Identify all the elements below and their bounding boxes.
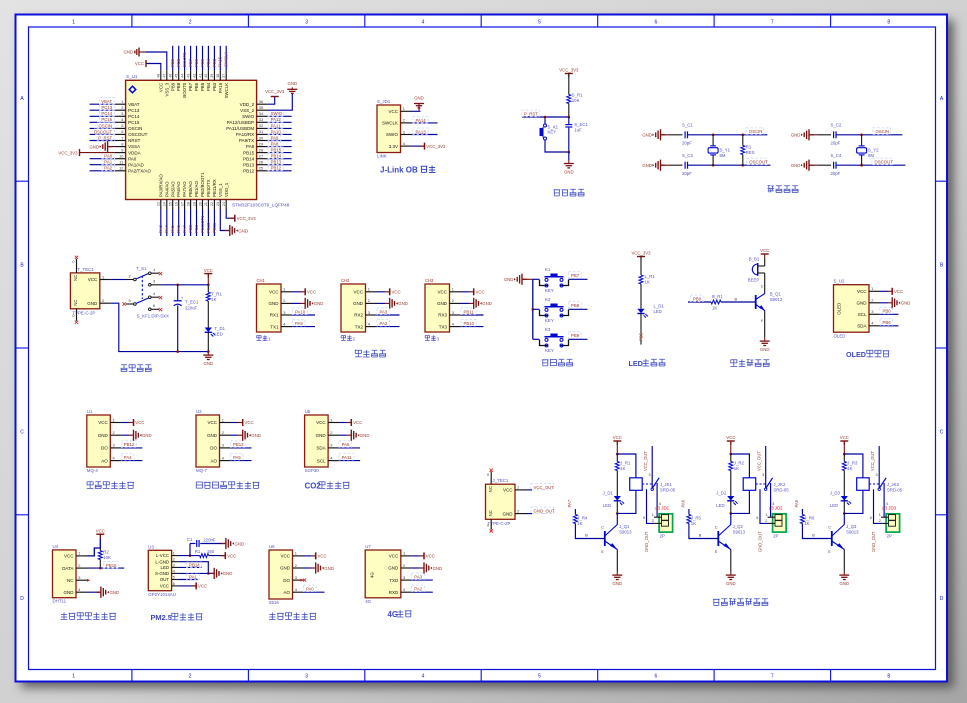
- resistor J_R3 1K: [842, 462, 846, 471]
- wire L-VCC node: [179, 555, 200, 557]
- node junction: [616, 453, 619, 456]
- svg-text:1K: 1K: [804, 521, 809, 526]
- svg-text:S9013: S9013: [846, 529, 859, 534]
- relay coil J_JK1 SRD-05: [630, 478, 643, 491]
- pin 2 GND: [328, 434, 339, 436]
- pin 27 PB14: [257, 158, 268, 160]
- net label PA4: [121, 454, 134, 461]
- net label PA9: [292, 320, 305, 327]
- wire base net: [574, 509, 576, 515]
- svg-text:L_D1: L_D1: [654, 304, 665, 309]
- svg-text:2: 2: [403, 118, 405, 123]
- svg-text:VCC: VCC: [64, 554, 74, 559]
- wire: [90, 109, 115, 111]
- svg-text:K2: K2: [545, 297, 551, 302]
- connector T_TEC1 TYPE-C-2P: [70, 273, 99, 309]
- svg-text:RES: RES: [746, 150, 755, 155]
- wire OSCIN: [837, 134, 903, 136]
- wire: [121, 422, 129, 424]
- ground: [238, 434, 243, 436]
- pin 2 GND: [110, 434, 121, 436]
- svg-text:3: 3: [283, 310, 285, 315]
- svg-text:GND: GND: [414, 96, 424, 101]
- wire: [568, 128, 570, 152]
- svg-text:S9013: S9013: [733, 529, 746, 534]
- svg-text:SWCLK: SWCLK: [224, 83, 229, 99]
- wire: [90, 133, 115, 135]
- svg-text:1: 1: [72, 20, 75, 26]
- svg-text:GND: GND: [123, 50, 133, 55]
- wire: [339, 460, 360, 462]
- module U5 SGP30 group: [305, 409, 370, 491]
- net label GND_OUT: [531, 507, 554, 513]
- svg-text:PB7: PB7: [188, 82, 193, 91]
- wire: [461, 314, 484, 316]
- relay driver circuit 2 group: [681, 435, 790, 586]
- svg-text:PA9: PA9: [295, 321, 303, 326]
- pin 15 PA5/AO: [172, 200, 174, 210]
- wire pin1 to GND: [412, 110, 421, 112]
- LED J_D1: [614, 496, 621, 501]
- pin 38 PA15: [219, 70, 221, 80]
- svg-text:VCC: VCC: [204, 268, 213, 273]
- wire: [339, 447, 360, 449]
- svg-text:1: 1: [222, 417, 224, 422]
- svg-text:J_Q1: J_Q1: [619, 524, 630, 529]
- svg-text:17: 17: [180, 202, 184, 206]
- svg-text:1: 1: [173, 552, 175, 556]
- wire: [90, 103, 115, 105]
- svg-text:GND: GND: [204, 361, 214, 366]
- svg-text:1: 1: [330, 417, 332, 422]
- wire: [616, 471, 618, 497]
- svg-text:VCC: VCC: [503, 488, 513, 493]
- module U3 GP2Y1014AU group: [148, 537, 244, 622]
- pin 41 PB5: [202, 70, 204, 80]
- pin 24 VDD_1: [225, 200, 227, 210]
- wire: [268, 146, 292, 148]
- svg-text:PB9: PB9: [571, 333, 580, 338]
- wire: [268, 158, 292, 160]
- svg-text:LED: LED: [830, 503, 838, 508]
- net label PB10: [461, 320, 476, 327]
- svg-text:1: 1: [113, 417, 115, 422]
- svg-text:1: 1: [78, 551, 80, 556]
- resistor J_R4 1K: [573, 515, 577, 524]
- wire gnd bus: [522, 278, 533, 280]
- crystal circuit 2 group: [791, 123, 906, 177]
- svg-text:PB12: PB12: [243, 168, 255, 173]
- power VCC: [300, 291, 305, 293]
- svg-text:PB3: PB3: [212, 82, 217, 91]
- svg-text:2: 2: [102, 298, 104, 303]
- net label PB14: [187, 561, 202, 568]
- pin 3 LED: [172, 566, 179, 568]
- svg-text:S-GND: S-GND: [155, 571, 169, 576]
- wire: [640, 257, 642, 276]
- svg-text:PB1/AO: PB1/AO: [194, 181, 199, 197]
- component body U6 5516: [269, 550, 293, 599]
- svg-text:RX1: RX1: [270, 313, 279, 318]
- node junction: [730, 453, 733, 456]
- pin 3 DO: [293, 579, 304, 581]
- svg-text:PA0: PA0: [306, 587, 314, 592]
- pin 3 RX1: [281, 314, 292, 316]
- wire: [730, 501, 732, 514]
- svg-text:3: 3: [113, 443, 115, 448]
- power VCC_3V3 at VDDA pin 9: [80, 152, 115, 154]
- svg-text:5: 5: [643, 516, 645, 520]
- component body J_TEC1 TYPE-C-2P: [486, 484, 516, 519]
- svg-text:GND: GND: [269, 301, 280, 306]
- wire: [292, 302, 301, 304]
- svg-text:J_JK2: J_JK2: [773, 482, 786, 487]
- svg-text:LED: LED: [215, 332, 223, 337]
- svg-text:6: 6: [121, 129, 123, 134]
- svg-text:P_RST: P_RST: [524, 112, 538, 117]
- svg-text:J_Q3: J_Q3: [846, 524, 857, 529]
- net label PA2: [102, 164, 115, 171]
- wire: [730, 471, 732, 497]
- svg-text:T_TEC1: T_TEC1: [77, 267, 94, 272]
- svg-text:PB8: PB8: [176, 82, 181, 91]
- power VCC_3V3 at VDD_1 pin 24: [226, 210, 235, 219]
- resistor L_R1 1K: [639, 275, 643, 284]
- pin 45 PB8: [178, 70, 180, 80]
- svg-text:C: C: [940, 429, 944, 435]
- ground: [96, 591, 101, 593]
- net label PA12: [268, 116, 283, 123]
- wire: [268, 121, 292, 123]
- capacitor S_C4 20pF: [833, 162, 835, 169]
- pin 28 PB15: [257, 152, 268, 154]
- net label PB15: [268, 146, 283, 153]
- svg-text:VCC: VCC: [437, 290, 447, 295]
- net label PB8: [568, 302, 581, 309]
- svg-text:GND_OUT: GND_OUT: [644, 531, 649, 552]
- svg-text:GND_OUT: GND_OUT: [871, 531, 876, 552]
- svg-text:TX1: TX1: [270, 324, 279, 329]
- svg-text:S_K1: S_K1: [548, 124, 559, 129]
- svg-text:1: 1: [452, 287, 454, 292]
- net label PA3: [412, 573, 425, 580]
- wire: [90, 158, 115, 160]
- svg-text:150: 150: [207, 549, 215, 554]
- connector J_TEC1 TYPE-C-2P group: [486, 469, 555, 533]
- node junction: [843, 512, 846, 515]
- connector CH3: [425, 284, 450, 332]
- svg-text:1: 1: [283, 287, 285, 292]
- svg-text:K3: K3: [545, 327, 551, 332]
- svg-text:J_D3: J_D3: [830, 491, 841, 496]
- resistor B_R1 1K: [711, 300, 721, 304]
- connector CH1: [257, 284, 282, 332]
- svg-text:PA9/TX: PA9/TX: [239, 138, 254, 143]
- crystal S_Y2 8M: [860, 134, 863, 137]
- wire: [184, 46, 186, 71]
- power VCC: [385, 291, 390, 293]
- svg-text:STM32F103C8T6_LQFP48: STM32F103C8T6_LQFP48: [232, 203, 290, 208]
- svg-text:U3: U3: [148, 544, 154, 549]
- svg-text:PB1: PB1: [194, 224, 199, 233]
- net label OSCIN: [873, 128, 891, 135]
- svg-text:C: C: [20, 429, 24, 435]
- net label PB0: [880, 307, 893, 314]
- svg-text:GND: GND: [791, 133, 801, 138]
- svg-text:PA1/AD: PA1/AD: [128, 162, 144, 167]
- resistor J_R2 1K: [729, 462, 733, 471]
- svg-text:GND: GND: [223, 571, 233, 576]
- svg-text:PA12: PA12: [271, 117, 282, 122]
- component body U1 MQ-4: [87, 415, 111, 467]
- wire: [231, 422, 239, 424]
- svg-text:1K: 1K: [211, 297, 216, 302]
- svg-text:GND: GND: [840, 581, 850, 586]
- svg-text:1uF: 1uF: [574, 127, 582, 132]
- pin 4 TX3: [450, 326, 461, 328]
- svg-text:LED: LED: [161, 565, 170, 570]
- connector JD1 2P: [659, 514, 673, 532]
- svg-text:SDA: SDA: [857, 324, 866, 329]
- svg-text:GND: GND: [64, 590, 75, 595]
- svg-text:DATA: DATA: [62, 566, 73, 571]
- svg-text:PB10: PB10: [464, 321, 475, 326]
- pin 4 SDA: [869, 325, 880, 327]
- net label PB7: [568, 272, 581, 279]
- svg-text:VCC: VCC: [269, 290, 279, 295]
- svg-text:PB10: PB10: [206, 222, 211, 233]
- wire up to cap: [189, 544, 191, 556]
- ground: [418, 104, 420, 112]
- svg-text:SRD-05: SRD-05: [773, 488, 789, 493]
- svg-text:26: 26: [259, 160, 263, 165]
- net label OSCOUT: [872, 158, 892, 165]
- svg-text:S_C4: S_C4: [831, 153, 842, 158]
- wire: [268, 152, 292, 154]
- svg-text:NRST: NRST: [128, 138, 141, 143]
- wire: [268, 127, 292, 129]
- wire contact NO down: [883, 483, 885, 517]
- wire: [231, 434, 239, 436]
- wire: [178, 210, 180, 237]
- svg-text:VSS_3: VSS_3: [164, 82, 169, 96]
- pin 35 VSS_2: [257, 109, 268, 111]
- svg-text:2: 2: [189, 673, 192, 679]
- svg-text:GND: GND: [89, 144, 99, 149]
- svg-text:20: 20: [198, 202, 202, 206]
- svg-text:25: 25: [259, 166, 263, 171]
- pin 1 VCC: [281, 291, 292, 293]
- ground: [469, 302, 474, 304]
- power VCC: [191, 585, 196, 587]
- buzzer circuit group: [688, 248, 783, 366]
- wire: [184, 210, 186, 237]
- svg-text:2: 2: [113, 430, 115, 435]
- pin 4 AO: [110, 460, 121, 462]
- wire: [377, 291, 386, 293]
- ground at VSS_2 pin 35: [268, 93, 293, 110]
- svg-text:GND: GND: [324, 566, 334, 571]
- svg-text:T_R1: T_R1: [211, 291, 222, 296]
- svg-text:TXD: TXD: [389, 578, 399, 583]
- svg-text:PA5/AO: PA5/AO: [170, 181, 175, 197]
- wire to coil top: [617, 454, 636, 478]
- component body U3 GP2Y1014AU: [148, 550, 171, 590]
- wire: [90, 164, 115, 166]
- wire: [569, 278, 588, 280]
- wire: [568, 117, 570, 124]
- ground: [207, 352, 209, 356]
- svg-text:AO: AO: [283, 590, 290, 595]
- svg-text:8: 8: [887, 673, 890, 679]
- pin 0 NC top: [76, 259, 78, 273]
- pin 2 SWCLK: [401, 122, 412, 124]
- pin 1 VCC: [293, 555, 304, 557]
- svg-text:5: 5: [173, 576, 175, 580]
- net label PC14: [100, 110, 115, 117]
- ground: [385, 302, 390, 304]
- svg-text:GND_OUT: GND_OUT: [534, 509, 555, 514]
- svg-text:S_EC1: S_EC1: [574, 122, 588, 127]
- svg-text:NC: NC: [488, 486, 493, 492]
- ground: [209, 572, 214, 574]
- svg-text:MQ-7: MQ-7: [196, 468, 208, 473]
- net label PA2: [377, 320, 390, 327]
- svg-text:3: 3: [173, 563, 175, 567]
- ground: [661, 134, 666, 136]
- resistor R1 RES: [742, 134, 745, 137]
- svg-text:R1: R1: [746, 145, 752, 150]
- resistor R1 150: [200, 554, 209, 558]
- pin 2 GND: [515, 513, 525, 515]
- svg-text:PC15: PC15: [128, 120, 140, 125]
- svg-text:5: 5: [538, 20, 541, 26]
- net label SWIO: [268, 110, 283, 117]
- wire to VCC: [209, 555, 225, 557]
- wire OSCOUT: [688, 164, 770, 166]
- svg-text:J_R1: J_R1: [620, 461, 631, 466]
- svg-text:2P: 2P: [887, 534, 892, 539]
- svg-text:2: 2: [189, 20, 192, 26]
- component body S_JD1 LINK: [377, 105, 401, 153]
- net label PA5: [230, 454, 243, 461]
- svg-text:J_TEC1: J_TEC1: [493, 478, 509, 483]
- svg-text:41: 41: [198, 74, 202, 78]
- node junction: [843, 453, 846, 456]
- pin 4 AO: [293, 591, 304, 593]
- svg-text:SWCLK: SWCLK: [224, 52, 229, 67]
- component body U5 SGP30: [305, 415, 329, 467]
- wire contact pin5 to JD pin2: [874, 489, 882, 523]
- capacitor S_EC1 1uF: [565, 124, 572, 126]
- svg-text:2: 2: [173, 558, 175, 562]
- capacitor S_C2 20pF: [833, 131, 835, 138]
- svg-text:PB5: PB5: [639, 332, 644, 341]
- svg-text:SCL: SCL: [858, 312, 867, 317]
- serial port circuits group: [257, 278, 492, 357]
- svg-text:PB15: PB15: [271, 148, 282, 153]
- module U1 MQ-4 group: [87, 409, 152, 489]
- svg-text:PB5: PB5: [200, 82, 205, 91]
- wire collector: [730, 513, 732, 524]
- svg-text:1: 1: [403, 551, 405, 556]
- svg-text:PB5: PB5: [200, 58, 205, 67]
- svg-text:R1: R1: [195, 549, 201, 554]
- wire: [213, 46, 215, 71]
- svg-text:PA11: PA11: [271, 123, 281, 128]
- svg-text:SRD-05: SRD-05: [660, 488, 676, 493]
- wire: [207, 332, 209, 351]
- svg-text:CH2: CH2: [341, 278, 350, 283]
- svg-text:VCC: VCC: [426, 554, 435, 559]
- svg-text:7: 7: [771, 673, 774, 679]
- svg-text:39: 39: [210, 74, 214, 78]
- svg-text:VCC: VCC: [316, 420, 326, 425]
- wire: [231, 447, 252, 449]
- wire: [268, 140, 292, 142]
- power circuit group: [70, 256, 225, 372]
- pin 37 SWCLK: [225, 70, 227, 80]
- title relay control circuit: [713, 599, 720, 605]
- svg-text:PB9: PB9: [170, 82, 175, 91]
- wire: [304, 591, 325, 593]
- pin 4 AO: [220, 460, 231, 462]
- svg-text:4: 4: [422, 20, 425, 26]
- wire: [177, 306, 179, 352]
- power VCC: [129, 422, 134, 424]
- connector JD2 2P: [773, 514, 787, 532]
- pin 2 GND: [869, 302, 880, 304]
- wire LED net: [179, 566, 202, 568]
- svg-text:VCC_3V3: VCC_3V3: [559, 68, 579, 73]
- title reset circuit: [554, 190, 561, 196]
- connector S_JD1 J-Link group: [377, 96, 446, 175]
- pin 1 VCC: [450, 291, 461, 293]
- svg-text:S_KF1 DIP-SXX: S_KF1 DIP-SXX: [137, 314, 169, 319]
- svg-text:PB4: PB4: [206, 82, 211, 91]
- crystal circuit 1 group: [642, 123, 770, 177]
- svg-text:GND: GND: [98, 433, 109, 438]
- svg-text:PA3: PA3: [158, 225, 163, 233]
- svg-text:PB6: PB6: [194, 82, 199, 91]
- svg-text:3: 3: [871, 309, 873, 314]
- net label PA10: [268, 128, 283, 134]
- svg-text:VBAT: VBAT: [101, 99, 112, 104]
- wire output rail: [161, 284, 208, 286]
- pin 33 PA12/USBDP: [257, 121, 268, 123]
- pin 3 RX2: [366, 314, 377, 316]
- svg-text:7: 7: [121, 135, 123, 140]
- svg-text:PA5: PA5: [233, 455, 241, 460]
- pin 3 SCL: [869, 313, 880, 315]
- op MCU U1 group: [58, 46, 297, 236]
- connector CH2: [341, 284, 366, 332]
- net label PB13: [230, 441, 245, 448]
- svg-text:OUT: OUT: [160, 577, 170, 582]
- svg-text:PB11/RX: PB11/RX: [212, 179, 217, 197]
- svg-text:VCC: VCC: [318, 554, 327, 559]
- svg-text:GND: GND: [901, 301, 911, 306]
- wire: [268, 133, 292, 135]
- svg-text:OSCOUT: OSCOUT: [875, 160, 894, 165]
- pin 0 NC top: [490, 472, 492, 485]
- LED T_D1: [205, 328, 212, 333]
- svg-text:PA4: PA4: [164, 225, 169, 233]
- svg-text:VCC_3V3: VCC_3V3: [237, 216, 257, 221]
- power VCC: [887, 290, 892, 292]
- svg-text:OSCOUT: OSCOUT: [749, 160, 768, 165]
- svg-text:3: 3: [330, 443, 332, 448]
